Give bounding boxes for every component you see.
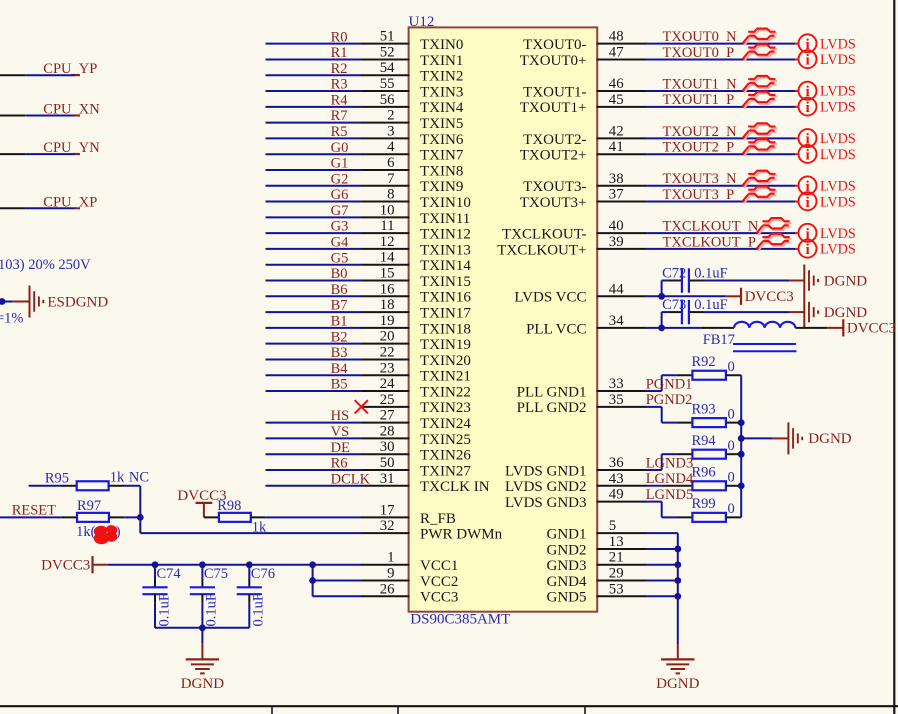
svg-text:36: 36: [609, 455, 624, 471]
svg-text:26: 26: [380, 581, 395, 597]
svg-text:PWR DWMn: PWR DWMn: [420, 527, 503, 543]
svg-text:LVDS: LVDS: [820, 226, 856, 242]
svg-text:G1: G1: [331, 156, 349, 172]
svg-text:TXOUT3 P: TXOUT3 P: [663, 187, 735, 203]
svg-text:17: 17: [380, 502, 395, 518]
svg-text:13: 13: [609, 534, 624, 550]
svg-text:44: 44: [609, 281, 624, 297]
svg-text:15: 15: [380, 266, 395, 282]
svg-text:PLL GND2: PLL GND2: [517, 400, 587, 416]
svg-text:23: 23: [380, 360, 395, 376]
svg-text:G3: G3: [331, 219, 349, 235]
svg-text:DVCC3: DVCC3: [847, 321, 896, 337]
svg-text:12: 12: [380, 234, 395, 250]
svg-text:B3: B3: [331, 345, 348, 361]
svg-text:R5: R5: [331, 124, 348, 140]
svg-text:TXIN20: TXIN20: [420, 353, 471, 369]
svg-text:B6: B6: [331, 282, 348, 298]
svg-text:B5: B5: [331, 377, 348, 393]
svg-text:0.1uF: 0.1uF: [251, 593, 267, 626]
svg-text:B0: B0: [331, 266, 348, 282]
svg-text:TXIN5: TXIN5: [420, 116, 463, 132]
svg-text:C75: C75: [204, 566, 228, 582]
svg-text:53: 53: [609, 581, 624, 597]
svg-text:19: 19: [380, 313, 395, 329]
svg-text:CPU_YP: CPU_YP: [43, 61, 97, 77]
svg-text:LVDS GND2: LVDS GND2: [505, 479, 587, 495]
svg-text:GND3: GND3: [547, 558, 587, 574]
svg-text:TXOUT3 N: TXOUT3 N: [663, 171, 738, 187]
svg-text:TXIN7: TXIN7: [420, 148, 464, 164]
svg-text:54: 54: [380, 60, 395, 76]
svg-text:6: 6: [387, 155, 394, 171]
svg-text:R1: R1: [331, 45, 348, 61]
svg-text:DVCC3: DVCC3: [745, 289, 794, 305]
svg-text:R2: R2: [331, 61, 348, 77]
svg-text:32: 32: [380, 518, 395, 534]
svg-text:TXIN17: TXIN17: [420, 305, 471, 321]
svg-text:RESET: RESET: [12, 503, 56, 519]
svg-text:VCC1: VCC1: [420, 558, 458, 574]
svg-text:0: 0: [728, 406, 735, 422]
svg-text:20: 20: [380, 329, 395, 345]
svg-text:GND4: GND4: [547, 574, 587, 590]
svg-text:14: 14: [380, 250, 395, 266]
svg-text:5: 5: [609, 518, 616, 534]
svg-text:DVCC3: DVCC3: [41, 558, 90, 574]
svg-text:18: 18: [380, 297, 395, 313]
svg-text:4: 4: [387, 139, 395, 155]
svg-text:PLL GND1: PLL GND1: [517, 384, 587, 400]
svg-text:TXCLK IN: TXCLK IN: [420, 479, 490, 495]
svg-text:R92: R92: [692, 354, 716, 370]
svg-text:TXOUT1 P: TXOUT1 P: [663, 92, 735, 108]
svg-text:40: 40: [609, 218, 624, 234]
svg-text:TXOUT2+: TXOUT2+: [520, 148, 587, 164]
svg-text:41: 41: [609, 139, 624, 155]
svg-text:TXIN19: TXIN19: [420, 337, 471, 353]
svg-text:LVDS VCC: LVDS VCC: [514, 290, 586, 306]
svg-text:TXOUT1-: TXOUT1-: [523, 84, 586, 100]
svg-text:LGND3: LGND3: [646, 455, 694, 471]
svg-text:TXIN11: TXIN11: [420, 211, 470, 227]
svg-text:9: 9: [387, 566, 394, 582]
svg-text:0.1uF: 0.1uF: [156, 593, 172, 626]
svg-text:38: 38: [609, 171, 624, 187]
svg-text:25: 25: [380, 392, 395, 408]
svg-text:B1: B1: [331, 313, 348, 329]
svg-text:0: 0: [728, 438, 735, 454]
svg-text:TXIN22: TXIN22: [420, 384, 471, 400]
svg-text:VCC3: VCC3: [420, 590, 458, 606]
svg-text:TXIN12: TXIN12: [420, 227, 471, 243]
svg-text:LVDS: LVDS: [820, 131, 856, 147]
svg-text:=1%: =1%: [0, 311, 24, 327]
svg-text:34: 34: [609, 313, 624, 329]
svg-text:TXIN8: TXIN8: [420, 163, 463, 179]
svg-text:0.1uF: 0.1uF: [204, 593, 220, 626]
svg-text:TXOUT0-: TXOUT0-: [523, 37, 586, 53]
svg-text:TXIN3: TXIN3: [420, 84, 463, 100]
svg-text:33: 33: [609, 376, 624, 392]
svg-text:DGND: DGND: [824, 305, 867, 321]
svg-text:37: 37: [609, 187, 624, 203]
svg-text:TXIN2: TXIN2: [420, 69, 463, 85]
svg-text:TXCLKOUT-: TXCLKOUT-: [502, 227, 586, 243]
svg-text:LVDS: LVDS: [820, 147, 856, 163]
svg-text:0.1uF: 0.1uF: [694, 266, 727, 282]
svg-text:24: 24: [380, 376, 395, 392]
svg-text:TXIN4: TXIN4: [420, 100, 464, 116]
svg-text:R0: R0: [331, 29, 348, 45]
svg-text:DGND: DGND: [808, 431, 851, 447]
svg-text:R96: R96: [692, 465, 716, 481]
svg-text:PGND1: PGND1: [646, 376, 693, 392]
svg-text:1k: 1k: [252, 519, 267, 535]
svg-text:TXIN26: TXIN26: [420, 448, 471, 464]
svg-text:LVDS GND3: LVDS GND3: [505, 495, 587, 511]
svg-text:3: 3: [387, 123, 394, 139]
svg-text:i: i: [805, 194, 809, 211]
svg-text:TXOUT1 N: TXOUT1 N: [663, 76, 738, 92]
svg-text:DS90C385AMT: DS90C385AMT: [410, 612, 510, 628]
svg-text:LVDS: LVDS: [820, 100, 856, 116]
svg-text:7: 7: [387, 171, 394, 187]
svg-text:PLL VCC: PLL VCC: [526, 321, 586, 337]
svg-text:C72: C72: [662, 266, 686, 282]
svg-text:TXIN15: TXIN15: [420, 274, 471, 290]
svg-text:G5: G5: [331, 250, 349, 266]
svg-text:49: 49: [609, 487, 624, 503]
svg-text:TXOUT2-: TXOUT2-: [523, 132, 586, 148]
svg-text:29: 29: [609, 566, 624, 582]
svg-text:TXIN18: TXIN18: [420, 321, 471, 337]
svg-text:CPU_YN: CPU_YN: [43, 140, 100, 156]
svg-text:48: 48: [609, 29, 624, 45]
svg-text:DGND: DGND: [181, 676, 224, 692]
svg-text:R7: R7: [331, 108, 348, 124]
svg-text:PGND2: PGND2: [646, 392, 693, 408]
svg-text:LVDS: LVDS: [820, 52, 856, 68]
svg-text:TXIN10: TXIN10: [420, 195, 471, 211]
svg-text:55: 55: [380, 76, 395, 92]
svg-text:VS: VS: [331, 424, 350, 440]
svg-text:B4: B4: [331, 361, 349, 377]
svg-text:R6: R6: [331, 456, 348, 472]
svg-text:TXOUT3-: TXOUT3-: [523, 179, 586, 195]
svg-text:R_FB: R_FB: [420, 511, 456, 527]
svg-text:NC: NC: [129, 469, 149, 485]
svg-text:C76: C76: [251, 566, 275, 582]
svg-text:1: 1: [387, 550, 394, 566]
svg-text:TXIN14: TXIN14: [420, 258, 471, 274]
svg-text:30: 30: [380, 439, 395, 455]
svg-text:G0: G0: [331, 140, 349, 156]
svg-text:LVDS: LVDS: [820, 36, 856, 52]
svg-text:TXIN23: TXIN23: [420, 400, 471, 416]
svg-text:56: 56: [380, 92, 395, 108]
svg-text:31: 31: [380, 471, 395, 487]
svg-text:28: 28: [380, 423, 395, 439]
svg-text:50: 50: [380, 455, 395, 471]
svg-text:LVDS: LVDS: [820, 242, 856, 258]
svg-text:45: 45: [609, 92, 624, 108]
svg-text:TXOUT1+: TXOUT1+: [520, 100, 587, 116]
svg-text:G2: G2: [331, 171, 349, 187]
svg-text:i: i: [805, 99, 809, 116]
svg-text:21: 21: [609, 550, 624, 566]
svg-text:8: 8: [387, 187, 394, 203]
svg-text:R95: R95: [45, 471, 69, 487]
svg-text:TXIN13: TXIN13: [420, 242, 471, 258]
svg-text:TXOUT2 P: TXOUT2 P: [663, 140, 735, 156]
svg-text:TXIN1: TXIN1: [420, 53, 463, 69]
svg-text:i: i: [805, 146, 809, 163]
svg-text:TXIN6: TXIN6: [420, 132, 464, 148]
svg-text:U12: U12: [409, 14, 435, 30]
svg-text:LVDS: LVDS: [820, 178, 856, 194]
svg-text:22: 22: [380, 344, 395, 360]
svg-text:10: 10: [380, 202, 395, 218]
svg-text:TXIN16: TXIN16: [420, 290, 471, 306]
svg-text:B2: B2: [331, 329, 348, 345]
svg-text:LVDS: LVDS: [820, 194, 856, 210]
svg-text:G6: G6: [331, 187, 349, 203]
svg-text:R98: R98: [217, 498, 241, 514]
svg-text:HS: HS: [331, 408, 350, 424]
svg-text:103) 20% 250V: 103) 20% 250V: [0, 257, 91, 273]
svg-text:CPU_XP: CPU_XP: [43, 194, 97, 210]
svg-text:i: i: [805, 241, 809, 258]
svg-text:B7: B7: [331, 298, 348, 314]
svg-text:TXIN21: TXIN21: [420, 369, 471, 385]
svg-text:LGND5: LGND5: [646, 487, 694, 503]
svg-text:27: 27: [380, 408, 395, 424]
svg-text:GND5: GND5: [547, 590, 587, 606]
svg-text:TXOUT0 P: TXOUT0 P: [663, 45, 735, 61]
svg-text:GND1: GND1: [547, 527, 587, 543]
svg-text:LVDS: LVDS: [820, 84, 856, 100]
svg-text:GND2: GND2: [547, 542, 587, 558]
svg-text:VCC2: VCC2: [420, 574, 458, 590]
svg-text:47: 47: [609, 44, 624, 60]
svg-text:TXOUT2 N: TXOUT2 N: [663, 124, 738, 140]
svg-text:46: 46: [609, 76, 624, 92]
svg-text:TXIN0: TXIN0: [420, 37, 463, 53]
svg-text:R99: R99: [692, 496, 716, 512]
svg-text:LGND4: LGND4: [646, 471, 694, 487]
svg-text:TXOUT0 N: TXOUT0 N: [663, 29, 738, 45]
svg-text:1k(: 1k(: [76, 524, 96, 540]
svg-text:C73: C73: [662, 297, 686, 313]
svg-text:G7: G7: [331, 203, 349, 219]
svg-text:R97: R97: [77, 498, 101, 514]
svg-text:52: 52: [380, 44, 395, 60]
svg-text:51: 51: [380, 29, 395, 45]
svg-text:i: i: [805, 52, 809, 69]
svg-text:R4: R4: [331, 92, 349, 108]
svg-text:35: 35: [609, 392, 624, 408]
svg-text:R3: R3: [331, 77, 348, 93]
svg-text:R93: R93: [692, 401, 716, 417]
svg-text:FB17: FB17: [703, 332, 735, 348]
svg-text:16: 16: [380, 281, 395, 297]
svg-text:LVDS GND1: LVDS GND1: [505, 463, 587, 479]
svg-text:TXCLKOUT N: TXCLKOUT N: [663, 219, 759, 235]
svg-text:43: 43: [609, 471, 624, 487]
svg-text:G4: G4: [331, 235, 349, 251]
svg-text:TXIN9: TXIN9: [420, 179, 463, 195]
svg-text:TXIN24: TXIN24: [420, 416, 471, 432]
svg-text:1k: 1k: [110, 469, 125, 485]
svg-text:11: 11: [380, 218, 394, 234]
svg-text:TXOUT0+: TXOUT0+: [520, 53, 587, 69]
svg-text:DGND: DGND: [824, 273, 867, 289]
svg-text:C74: C74: [157, 566, 182, 582]
svg-text:DCLK: DCLK: [331, 471, 371, 487]
svg-text:R94: R94: [692, 433, 717, 449]
svg-text:TXIN27: TXIN27: [420, 463, 471, 479]
svg-text:39: 39: [609, 234, 624, 250]
svg-text:DGND: DGND: [656, 676, 699, 692]
svg-text:TXIN25: TXIN25: [420, 432, 471, 448]
svg-text:ESDGND: ESDGND: [47, 294, 108, 310]
svg-text:0: 0: [728, 359, 735, 375]
svg-text:2: 2: [387, 108, 394, 124]
svg-text:0: 0: [728, 470, 735, 486]
svg-text:TXOUT3+: TXOUT3+: [520, 195, 587, 211]
svg-text:42: 42: [609, 123, 624, 139]
svg-text:0.1uF: 0.1uF: [694, 297, 727, 313]
svg-text:DE: DE: [331, 440, 350, 456]
svg-text:TXCLKOUT P: TXCLKOUT P: [663, 234, 756, 250]
svg-text:TXCLKOUT+: TXCLKOUT+: [497, 242, 586, 258]
svg-text:CPU_XN: CPU_XN: [43, 102, 100, 118]
svg-text:0: 0: [728, 501, 735, 517]
